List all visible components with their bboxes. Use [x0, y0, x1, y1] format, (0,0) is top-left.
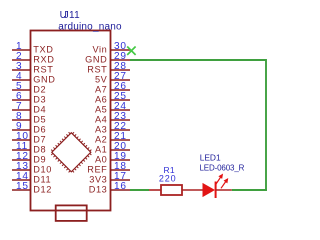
svg-text:D9: D9 [33, 154, 46, 164]
svg-text:D10: D10 [33, 164, 52, 174]
svg-text:3V3: 3V3 [89, 174, 107, 184]
svg-text:220: 220 [159, 174, 177, 184]
svg-text:D6: D6 [33, 124, 46, 134]
svg-text:D8: D8 [33, 144, 46, 154]
svg-text:RST: RST [87, 64, 107, 74]
svg-text:A3: A3 [95, 124, 107, 134]
svg-text:D2: D2 [33, 84, 46, 94]
svg-text:5V: 5V [95, 74, 108, 84]
svg-text:D13: D13 [89, 184, 108, 194]
svg-text:D3: D3 [33, 94, 46, 104]
svg-text:A2: A2 [95, 134, 107, 144]
svg-text:D5: D5 [33, 114, 46, 124]
svg-text:16: 16 [114, 181, 127, 192]
svg-text:GND: GND [33, 74, 55, 84]
svg-text:REF: REF [87, 164, 107, 174]
svg-text:11: 11 [69, 10, 80, 21]
svg-text:A6: A6 [95, 94, 107, 104]
svg-text:RXD: RXD [33, 54, 54, 64]
svg-text:arduino_nano: arduino_nano [58, 21, 122, 32]
svg-text:LED-0603_R: LED-0603_R [200, 164, 245, 173]
svg-text:D4: D4 [33, 104, 46, 114]
svg-text:TXD: TXD [33, 44, 53, 54]
svg-text:A4: A4 [95, 114, 107, 124]
svg-text:D7: D7 [33, 134, 46, 144]
svg-text:A1: A1 [95, 144, 107, 154]
svg-text:GND: GND [85, 54, 107, 64]
svg-text:RST: RST [33, 64, 53, 74]
svg-text:A0: A0 [95, 154, 107, 164]
svg-text:A5: A5 [95, 104, 107, 114]
svg-text:D12: D12 [33, 184, 52, 194]
svg-text:15: 15 [16, 181, 29, 192]
svg-text:Vin: Vin [92, 44, 107, 54]
svg-text:LED1: LED1 [200, 153, 221, 163]
svg-text:D11: D11 [33, 174, 51, 184]
svg-text:A7: A7 [95, 84, 107, 94]
